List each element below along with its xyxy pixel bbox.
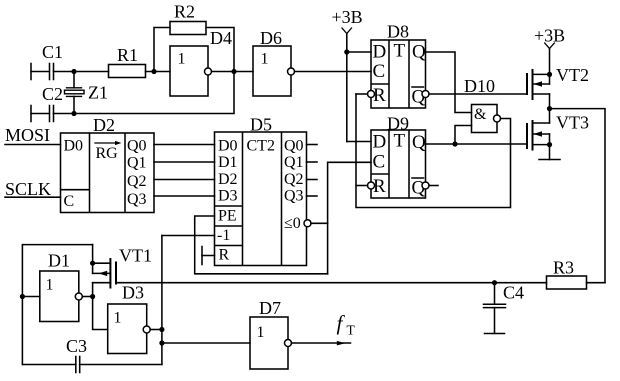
svg-text:D1: D1: [48, 251, 70, 271]
svg-text:+3B: +3B: [534, 26, 565, 46]
resistor R2: [170, 2, 206, 35]
svg-text:C: C: [64, 193, 75, 210]
wire D8.Q to D10 input 1: [426, 52, 472, 113]
svg-text:Q1: Q1: [284, 154, 304, 171]
svg-text:1: 1: [257, 324, 265, 341]
crystal Z1: [65, 72, 109, 114]
node D4 output: [231, 69, 236, 74]
wire VT1 gate to R3 (long bottom wire): [116, 282, 547, 284]
node VT1 source / D1 out: [90, 294, 95, 299]
wire C1 to R1: [54, 71, 109, 73]
wire D5.Q1 stub: [307, 161, 318, 163]
op-amp D7 (inverter): [250, 298, 292, 369]
node Z1 bottom: [71, 111, 76, 116]
node D3 output: [159, 327, 164, 332]
power +3B (right): [534, 26, 565, 75]
node +3B / D8.D: [344, 49, 349, 54]
op-amp D1 (inverter): [40, 251, 83, 322]
svg-text:Q: Q: [412, 42, 426, 63]
wire D2.Q3 to D5.D3: [154, 195, 215, 197]
svg-text:Q3: Q3: [127, 191, 147, 208]
svg-text:D: D: [373, 132, 387, 153]
svg-text:R2: R2: [174, 2, 195, 22]
transistor VT3: [527, 109, 589, 150]
wire D2.Q0 to D5.D0: [154, 144, 215, 146]
svg-text:D0: D0: [64, 138, 84, 155]
resistor R3: [547, 258, 606, 290]
reset net R wires: [356, 94, 511, 208]
wire D6 to D8 C input: [295, 71, 372, 73]
svg-text:Q0: Q0: [127, 138, 147, 155]
svg-text:Q0: Q0: [284, 138, 304, 155]
transistor VT1: [90, 245, 152, 297]
and-gate D10: [464, 76, 501, 133]
wire C2/Z1 bottom to D4 output return: [54, 72, 235, 114]
wire R2 to D4 output node: [206, 28, 234, 72]
node fT output label: [337, 311, 356, 338]
svg-text:D1: D1: [218, 154, 238, 171]
svg-text:D3: D3: [122, 283, 144, 303]
svg-text:D6: D6: [260, 28, 282, 48]
capacitor C1: [31, 42, 63, 80]
counter D5: [215, 115, 307, 266]
power +3B (left): [332, 7, 363, 142]
svg-text:1: 1: [114, 310, 122, 327]
svg-text:≤0: ≤0: [284, 215, 301, 232]
wire D5.Q3 stub: [307, 195, 318, 197]
svg-text:1: 1: [261, 51, 269, 68]
svg-text:VT3: VT3: [556, 113, 589, 133]
capacitor C2: [31, 84, 63, 122]
flip-flop D8: [368, 22, 430, 109]
node MOSI input: [5, 125, 61, 145]
svg-text:D8: D8: [387, 22, 409, 42]
svg-text:T: T: [394, 41, 406, 62]
wire +3B to D8.D: [347, 51, 371, 53]
wire D2.Q2 to D5.D2: [154, 179, 215, 181]
node D7 input tap: [159, 340, 164, 345]
ground under VT3: [539, 145, 560, 160]
node D4 input junction: [151, 69, 156, 74]
svg-text:C1: C1: [42, 42, 63, 62]
wire D9.Q to VT3 gate and D10 input 2: [426, 143, 528, 145]
svg-text:R3: R3: [553, 258, 574, 278]
wire D7 output with arrow: [292, 341, 351, 346]
svg-text:C3: C3: [66, 336, 87, 356]
transistor VT2: [527, 65, 589, 109]
D5 borrow output bubble: [304, 220, 311, 227]
svg-text:Q3: Q3: [284, 188, 304, 205]
wire feedback up to R2: [154, 28, 170, 72]
svg-text:-1: -1: [217, 227, 230, 244]
svg-text:SCLK: SCLK: [5, 179, 51, 199]
svg-text:Q2: Q2: [284, 171, 304, 188]
svg-text:C: C: [373, 61, 386, 82]
node D1 input: [20, 294, 25, 299]
svg-text:D: D: [373, 42, 387, 63]
wire output node to R3: [550, 109, 606, 283]
capacitor C4: [484, 283, 525, 334]
node C4 tap: [492, 280, 497, 285]
svg-text:VT2: VT2: [556, 65, 589, 85]
node XT top: [71, 69, 76, 74]
wire D5.Q2 stub: [307, 179, 318, 181]
svg-text:CT2: CT2: [247, 138, 275, 155]
wire D1 output to VT1 source and D3 input: [82, 296, 92, 298]
svg-text:Q2: Q2: [127, 173, 147, 190]
svg-text:C2: C2: [42, 84, 63, 104]
capacitor C3: [66, 336, 87, 373]
svg-text:MOSI: MOSI: [5, 125, 50, 145]
op-amp D6 (inverter): [253, 28, 295, 96]
svg-text:D7: D7: [259, 298, 281, 318]
svg-text:&: &: [474, 106, 487, 123]
wire +3B to D9.D: [347, 141, 371, 143]
svg-text:D3: D3: [218, 188, 238, 205]
svg-text:VT1: VT1: [119, 246, 152, 266]
wire D1 input: [22, 296, 39, 298]
svg-text:D0: D0: [218, 138, 238, 155]
op-amp D3 (inverter): [108, 283, 151, 354]
svg-text:+3B: +3B: [332, 7, 363, 27]
svg-text:C4: C4: [503, 283, 524, 303]
svg-text:PE: PE: [218, 208, 237, 225]
wire D2.Q1 to D5.D1: [154, 161, 215, 163]
svg-text:T: T: [394, 131, 406, 152]
wire borrow output to PE and D9.C: [311, 222, 328, 224]
node D9.Q: [452, 141, 457, 146]
wire -1 input: [162, 235, 215, 237]
wire D5.Q0 stub: [307, 144, 318, 146]
svg-text:1: 1: [178, 51, 186, 68]
svg-text:D2: D2: [218, 171, 238, 188]
svg-text:T: T: [347, 323, 356, 338]
svg-text:R: R: [219, 247, 230, 264]
node SCLK input: [5, 179, 61, 199]
wire D9.Qbar stub: [429, 185, 438, 187]
op-amp D4 (inverter): [170, 28, 232, 96]
wire C3 left: [22, 364, 75, 366]
svg-text:Z1: Z1: [88, 83, 108, 103]
wire D7 input: [162, 342, 250, 344]
shift register D2: [61, 115, 155, 213]
wire VT1 drain net (top left loop): [22, 245, 92, 365]
wire C3 right: [80, 364, 162, 366]
svg-text:C: C: [373, 152, 386, 173]
D5 R input stub: [202, 247, 215, 265]
svg-text:D10: D10: [464, 76, 495, 96]
svg-text:RG: RG: [96, 145, 119, 162]
svg-text:1: 1: [46, 277, 54, 294]
svg-text:Q1: Q1: [127, 155, 147, 172]
wire R1 to D4 input: [146, 71, 171, 73]
svg-text:D4: D4: [210, 28, 232, 48]
node VT2 source / VT3 drain: [547, 106, 552, 111]
wire D8.Qbar to VT2 gate: [429, 93, 527, 95]
flip-flop D9: [368, 114, 430, 199]
svg-text:D2: D2: [93, 115, 115, 135]
wire feedback vertical net (-1 / D3.out / D7.in / C3): [161, 236, 163, 365]
resistor R1: [109, 45, 146, 78]
wire D3 output to feedback node: [150, 329, 162, 331]
svg-text:R1: R1: [117, 45, 138, 65]
wire D4 to D6: [212, 71, 254, 73]
svg-text:Q: Q: [412, 132, 426, 153]
